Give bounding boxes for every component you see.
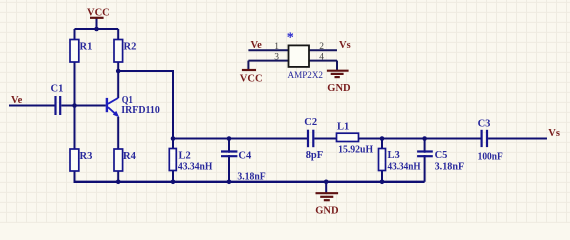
- svg-text:Vs: Vs: [548, 128, 560, 139]
- svg-text:IRFD110: IRFD110: [121, 105, 160, 116]
- wire: left column vertical (R1-R3 branch): [74, 29, 76, 182]
- inductor L1: [337, 133, 359, 141]
- svg-text:R4: R4: [123, 151, 137, 162]
- power VCC (top): [87, 8, 110, 29]
- svg-text:L2: L2: [179, 151, 191, 162]
- svg-text:8pF: 8pF: [306, 150, 324, 161]
- svg-text:R1: R1: [80, 41, 93, 52]
- node: collector junction: [116, 69, 121, 74]
- capacitor C5: [417, 152, 433, 157]
- resistor R2: [114, 40, 123, 63]
- svg-text:100nF: 100nF: [478, 151, 503, 162]
- inductor L2: [169, 149, 176, 171]
- svg-text:C3: C3: [478, 118, 491, 129]
- wire: C2 to L1: [314, 138, 336, 140]
- svg-text:R2: R2: [124, 41, 137, 52]
- svg-text:GND: GND: [315, 205, 339, 216]
- svg-text:Ve: Ve: [251, 40, 263, 51]
- wire: L1 to L3 junction to C5 to C3: [359, 138, 481, 140]
- node: C4 top junction: [227, 136, 232, 141]
- svg-text:R3: R3: [80, 151, 93, 162]
- pin 3 wire: [248, 60, 288, 62]
- svg-text:Ve: Ve: [11, 95, 23, 106]
- svg-text:C2: C2: [304, 117, 317, 128]
- ground GND (bottom): [315, 182, 339, 217]
- svg-text:43.34nH: 43.34nH: [388, 161, 421, 172]
- resistor R3: [70, 149, 79, 171]
- svg-text:C5: C5: [435, 150, 448, 161]
- wire: ground rail: [74, 181, 425, 183]
- node: R4 on rail: [116, 180, 121, 185]
- white gap for C4: [227, 153, 231, 155]
- pin 4 wire: [309, 60, 337, 62]
- node: C5 top junction: [422, 136, 427, 141]
- wire: Ve input to C1: [9, 105, 55, 107]
- svg-text:3.18nF: 3.18nF: [237, 172, 265, 183]
- resistor R4: [114, 149, 123, 171]
- capacitor C3: [482, 130, 487, 147]
- resistor R1: [70, 40, 79, 63]
- svg-text:1: 1: [274, 42, 279, 52]
- wire: C5 stubs: [424, 139, 426, 182]
- svg-text:2: 2: [319, 42, 324, 52]
- node: L3 top junction: [380, 136, 385, 141]
- svg-text:C4: C4: [238, 151, 252, 162]
- pin 1 wire: [248, 49, 288, 51]
- wire: C1 to transistor base: [61, 105, 106, 107]
- power VCC (pin3): [247, 61, 249, 70]
- node: L2 on rail: [171, 180, 176, 185]
- wire: C4 stubs: [228, 139, 230, 182]
- svg-text:15.92uH: 15.92uH: [338, 144, 373, 155]
- node: VCC junction: [94, 27, 99, 32]
- capacitor C2: [308, 130, 313, 148]
- node: L3 on rail: [380, 180, 385, 185]
- wire: L3 stubs: [381, 139, 383, 182]
- svg-text:L3: L3: [388, 150, 400, 161]
- connector body: [289, 45, 310, 67]
- node: L2 top junction: [171, 136, 176, 141]
- wire: right column vertical (R2 to collector): [117, 29, 119, 98]
- svg-text:AMP2X2: AMP2X2: [288, 70, 324, 81]
- capacitor C1: [56, 96, 61, 115]
- svg-text:VCC: VCC: [240, 74, 263, 85]
- white gap for C5: [423, 153, 427, 155]
- wire: filter top line L2 to C2: [173, 138, 307, 140]
- svg-text:C1: C1: [51, 84, 64, 95]
- connector U1 AMP2X2: [240, 31, 351, 95]
- svg-text:3: 3: [274, 53, 279, 63]
- svg-text:L1: L1: [337, 121, 349, 132]
- svg-text:4: 4: [319, 53, 324, 63]
- transistor Q1: [106, 98, 120, 118]
- ground GND (pin4): [336, 61, 338, 70]
- wire: emitter down to R4 and rail: [117, 117, 119, 182]
- wire: collector junction to filter column: [118, 71, 173, 139]
- svg-text:43.34nH: 43.34nH: [178, 161, 213, 172]
- svg-text:3.18nF: 3.18nF: [435, 161, 465, 172]
- node: C1/R1/R3 junction: [72, 103, 77, 108]
- wire: VCC top horizontal: [75, 28, 119, 30]
- svg-text:*: *: [287, 31, 294, 46]
- wire: L2 stubs: [172, 139, 174, 182]
- node: GND stub on rail: [324, 180, 329, 185]
- wire: C3 to Vs output: [488, 138, 547, 140]
- node: C4 on rail: [227, 180, 232, 185]
- svg-text:Vs: Vs: [339, 40, 351, 51]
- svg-text:VCC: VCC: [87, 8, 110, 19]
- svg-text:GND: GND: [327, 83, 351, 94]
- pin 2 wire: [309, 49, 337, 51]
- capacitor C4: [221, 152, 237, 157]
- inductor L3: [379, 149, 386, 171]
